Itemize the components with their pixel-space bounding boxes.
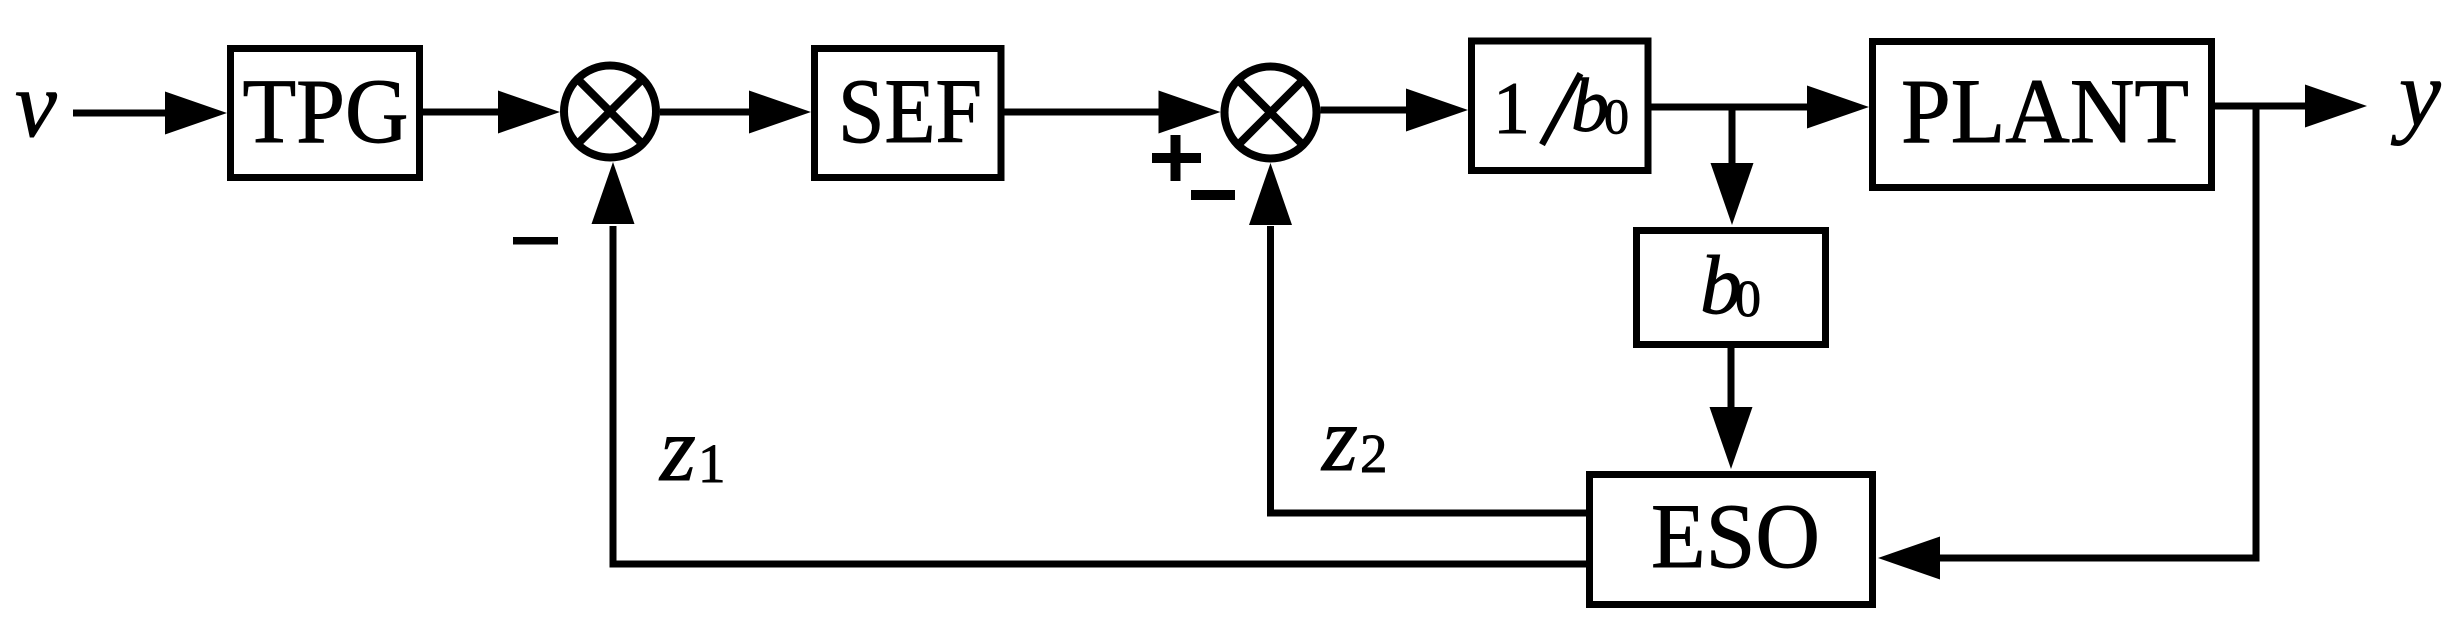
svg-text:ESO: ESO <box>1651 485 1820 587</box>
svg-text:0: 0 <box>1735 271 1761 328</box>
svg-text:y: y <box>2391 42 2441 146</box>
svg-text:v: v <box>15 53 57 157</box>
svg-text:PLANT: PLANT <box>1901 60 2189 162</box>
svg-text:2: 2 <box>1360 423 1388 484</box>
svg-text:TPG: TPG <box>243 60 409 162</box>
svg-text:z: z <box>1320 388 1358 490</box>
svg-text:1: 1 <box>1493 68 1530 150</box>
svg-text:z: z <box>658 398 696 500</box>
svg-text:1: 1 <box>698 433 726 494</box>
svg-text:0: 0 <box>1604 88 1629 144</box>
svg-text:SEF: SEF <box>838 60 982 162</box>
